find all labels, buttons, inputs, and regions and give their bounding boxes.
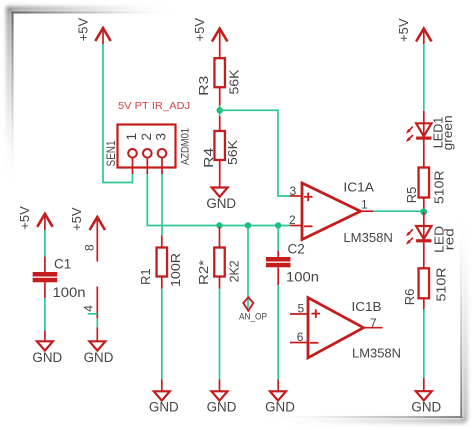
wire LED1 to R5 xyxy=(423,140,425,168)
label +5V (SEN1 rail) xyxy=(76,17,91,41)
label +5V (IC power) xyxy=(69,207,84,231)
svg-text:GND: GND xyxy=(207,400,237,415)
svg-text:56K: 56K xyxy=(225,140,240,165)
svg-text:2: 2 xyxy=(289,213,296,227)
power +5V supply symbol (IC1 pin 8) xyxy=(90,217,105,262)
pin number 8 (IC1 V+) xyxy=(82,244,96,251)
svg-text:1: 1 xyxy=(361,198,368,212)
connector SEN1 pin stubs xyxy=(133,158,163,174)
pin number 2 (IC1A) xyxy=(289,213,296,227)
resistor R4 body xyxy=(214,131,225,160)
svg-text:5V PT IR_ADJ: 5V PT IR_ADJ xyxy=(118,101,190,112)
svg-text:LM358N: LM358N xyxy=(352,346,401,361)
svg-text:R2*: R2* xyxy=(196,260,211,285)
wire SEN1 pin 2 to IC1A pin 2 net xyxy=(147,174,289,226)
wire LED red to R6 xyxy=(423,242,425,268)
label LM358N (IC1B) xyxy=(352,346,401,361)
label R2* xyxy=(196,260,211,285)
page border right xyxy=(460,190,462,418)
wire SEN1 pin 3 to R1 xyxy=(161,174,163,248)
label 2K2 (R2 value) xyxy=(226,260,241,282)
connector SEN1 body xyxy=(118,125,176,168)
label GND (R4) xyxy=(206,196,236,211)
label R4 xyxy=(201,148,216,168)
svg-text:R4: R4 xyxy=(201,148,216,168)
svg-text:R5: R5 xyxy=(404,187,419,204)
label +5V (LED rail) xyxy=(396,18,411,42)
LED LED1 (green) xyxy=(406,111,432,142)
pin stub IC1A pin 2 xyxy=(290,225,302,227)
svg-text:GND: GND xyxy=(411,400,441,415)
svg-text:C2: C2 xyxy=(288,241,305,256)
svg-text:AN_OP: AN_OP xyxy=(239,311,267,322)
node junction C2 top xyxy=(275,222,281,228)
label IC1B xyxy=(352,299,382,314)
op-amp IC1B xyxy=(308,298,364,358)
svg-text:green: green xyxy=(440,115,455,150)
ground GND (R1) xyxy=(154,391,170,400)
LED red (D2) xyxy=(406,226,432,245)
svg-text:100n: 100n xyxy=(53,285,86,300)
label GND (R2) xyxy=(207,400,237,415)
net labels 5V PT IR_ADJ xyxy=(118,101,190,112)
pin number 4 (IC1 GND) xyxy=(81,305,95,312)
svg-text:8: 8 xyxy=(82,244,96,251)
node junction LED output xyxy=(420,208,427,215)
power +5V supply symbol (to SEN1 pin 1) xyxy=(95,28,110,44)
wire divider junction to IC1A pin 3 xyxy=(220,110,290,196)
power +5V supply symbol (C1) xyxy=(37,214,52,230)
label GND (LED rail) xyxy=(411,400,441,415)
svg-text:56K: 56K xyxy=(226,69,241,94)
svg-text:4: 4 xyxy=(81,305,95,312)
label LM358N (IC1A) xyxy=(343,230,393,245)
wire R1 to GND xyxy=(161,277,163,392)
wire AN_OP tap xyxy=(247,227,249,308)
svg-text:3: 3 xyxy=(290,184,297,198)
label R5 xyxy=(404,187,419,204)
label GND (C2) xyxy=(265,400,295,415)
label +5V (C1) xyxy=(17,206,32,230)
label 100R (R1 value) xyxy=(168,253,183,287)
page border left xyxy=(11,11,13,226)
svg-text:GND: GND xyxy=(32,350,62,365)
wire R4 to GND xyxy=(219,160,221,188)
pin number 5 (IC1B) xyxy=(298,301,305,315)
label R1 xyxy=(138,268,153,285)
label red (LED value) xyxy=(442,228,457,250)
svg-text:GND: GND xyxy=(84,350,114,365)
svg-text:2K2: 2K2 xyxy=(226,260,241,282)
label 100n (C1 value) xyxy=(53,285,86,300)
label R3 xyxy=(196,76,211,96)
wire R5 to junction xyxy=(423,198,425,212)
svg-text:6: 6 xyxy=(297,330,304,344)
pin stub IC1 pin 4 to GND xyxy=(96,327,98,341)
svg-text:3: 3 xyxy=(154,133,169,141)
power +5V supply symbol (R3 top) xyxy=(212,29,227,59)
svg-text:7: 7 xyxy=(370,316,377,330)
ground GND (R2) xyxy=(212,391,228,400)
label C1 xyxy=(54,257,71,272)
wire IC1A output to LED junction xyxy=(373,210,424,212)
resistor R2 body xyxy=(214,248,225,277)
wire R3 to junction xyxy=(219,87,221,131)
svg-text:AZDM01: AZDM01 xyxy=(180,128,192,165)
label 100n (C2 value) xyxy=(286,270,319,285)
ground GND (R4) xyxy=(212,188,228,197)
pin number 2 (SEN1) xyxy=(139,133,154,141)
label 56K (R3 value) xyxy=(226,69,241,94)
svg-text:LM358N: LM358N xyxy=(343,230,393,245)
wire R2 to GND xyxy=(219,277,221,392)
label LED (red LED name) xyxy=(432,226,447,253)
svg-text:C1: C1 xyxy=(54,257,71,272)
wire +5V to C1 xyxy=(44,230,46,272)
label 510R (R5 value) xyxy=(432,171,447,205)
svg-text:+5V: +5V xyxy=(396,18,411,42)
label AZDM01 (connector value) xyxy=(180,128,192,165)
svg-text:100n: 100n xyxy=(286,270,319,285)
label C2 xyxy=(288,241,305,256)
resistor R1 body xyxy=(157,248,168,277)
label 56K (R4 value) xyxy=(225,140,240,165)
pin stub IC1 pin 4 upper xyxy=(96,287,98,319)
node junction AN_OP tap xyxy=(245,222,251,228)
page border bottom xyxy=(228,416,463,418)
svg-text:GND: GND xyxy=(265,400,295,415)
page shadow bottom-right xyxy=(238,200,467,423)
svg-text:100R: 100R xyxy=(168,253,183,287)
wire +5V rail down-left to SEN1 pin 1 xyxy=(103,44,133,182)
pin stub IC1B output pin 7 xyxy=(364,327,383,329)
svg-text:510R: 510R xyxy=(434,268,449,302)
pin number 1 (IC1A) xyxy=(361,198,368,212)
resistor R3 body xyxy=(214,58,225,87)
svg-text:5: 5 xyxy=(298,301,305,315)
svg-text:510R: 510R xyxy=(432,171,447,205)
label AN_OP xyxy=(239,311,267,322)
wire C1 to GND xyxy=(44,282,46,341)
wire C2 top xyxy=(277,227,279,257)
pin number 3 (SEN1) xyxy=(154,133,169,141)
op-amp IC1A xyxy=(302,183,361,240)
svg-text:R3: R3 xyxy=(196,76,211,96)
wire C2 to GND xyxy=(277,267,279,391)
power +5V supply symbol (LED rail) xyxy=(416,29,431,45)
connector SEN1 pin circles xyxy=(128,149,166,158)
ground GND (LED rail) xyxy=(416,391,432,400)
label 510R (R6 value) xyxy=(434,268,449,302)
svg-text:R6: R6 xyxy=(402,289,417,306)
svg-text:R1: R1 xyxy=(138,268,153,285)
node junction R3/R4 divider xyxy=(217,107,223,113)
svg-text:SEN1: SEN1 xyxy=(104,140,118,166)
resistor R5 body xyxy=(419,168,430,198)
label GND (IC power) xyxy=(84,350,114,365)
pin number 6 (IC1B) xyxy=(297,330,304,344)
ground GND (C1) xyxy=(37,341,53,350)
svg-text:+5V: +5V xyxy=(17,206,32,230)
capacitor C2 xyxy=(266,257,291,267)
svg-text:2: 2 xyxy=(139,133,154,141)
pin number 3 (IC1A) xyxy=(290,184,297,198)
pin stub IC1A output pin 1 xyxy=(361,210,374,212)
svg-text:1: 1 xyxy=(124,133,139,141)
svg-text:+5V: +5V xyxy=(69,207,84,231)
svg-text:GND: GND xyxy=(206,196,236,211)
wire junction to LED red xyxy=(423,212,425,226)
label SEN1 (connector name) xyxy=(104,140,118,166)
page border top xyxy=(12,11,285,13)
pin stub IC1A pin 3 xyxy=(290,195,302,197)
wire IC1 pin 4 net stub xyxy=(88,314,98,328)
svg-text:red: red xyxy=(442,228,457,250)
svg-text:+5V: +5V xyxy=(192,18,207,42)
svg-text:GND: GND xyxy=(149,400,179,415)
label LED1 xyxy=(430,117,445,149)
label GND (R1) xyxy=(149,400,179,415)
wire R6 to GND xyxy=(423,298,425,391)
wire +5V to LED1 anode xyxy=(423,44,425,111)
node junction R2 top xyxy=(216,222,222,228)
svg-text:IC1A: IC1A xyxy=(343,179,374,194)
pin stub IC1B pin 5 xyxy=(290,313,308,315)
label GND (C1) xyxy=(32,350,62,365)
ground GND (C2) xyxy=(270,391,286,400)
label green (LED1 value) xyxy=(440,115,455,150)
page shadow top-left xyxy=(7,7,282,226)
wire junction to R2 xyxy=(219,227,221,248)
node AN_OP pin symbol xyxy=(243,297,253,311)
label R6 xyxy=(402,289,417,306)
label +5V (R3 rail) xyxy=(192,18,207,42)
pin number 1 (SEN1) xyxy=(124,133,139,141)
svg-text:+5V: +5V xyxy=(76,17,91,41)
svg-text:IC1B: IC1B xyxy=(352,299,382,314)
capacitor C1 xyxy=(33,272,58,282)
pin stub IC1B pin 6 xyxy=(290,342,308,344)
ground GND (IC power) xyxy=(89,341,105,350)
pin number 7 (IC1B) xyxy=(370,316,377,330)
label IC1A xyxy=(343,179,374,194)
resistor R6 body xyxy=(419,268,430,298)
